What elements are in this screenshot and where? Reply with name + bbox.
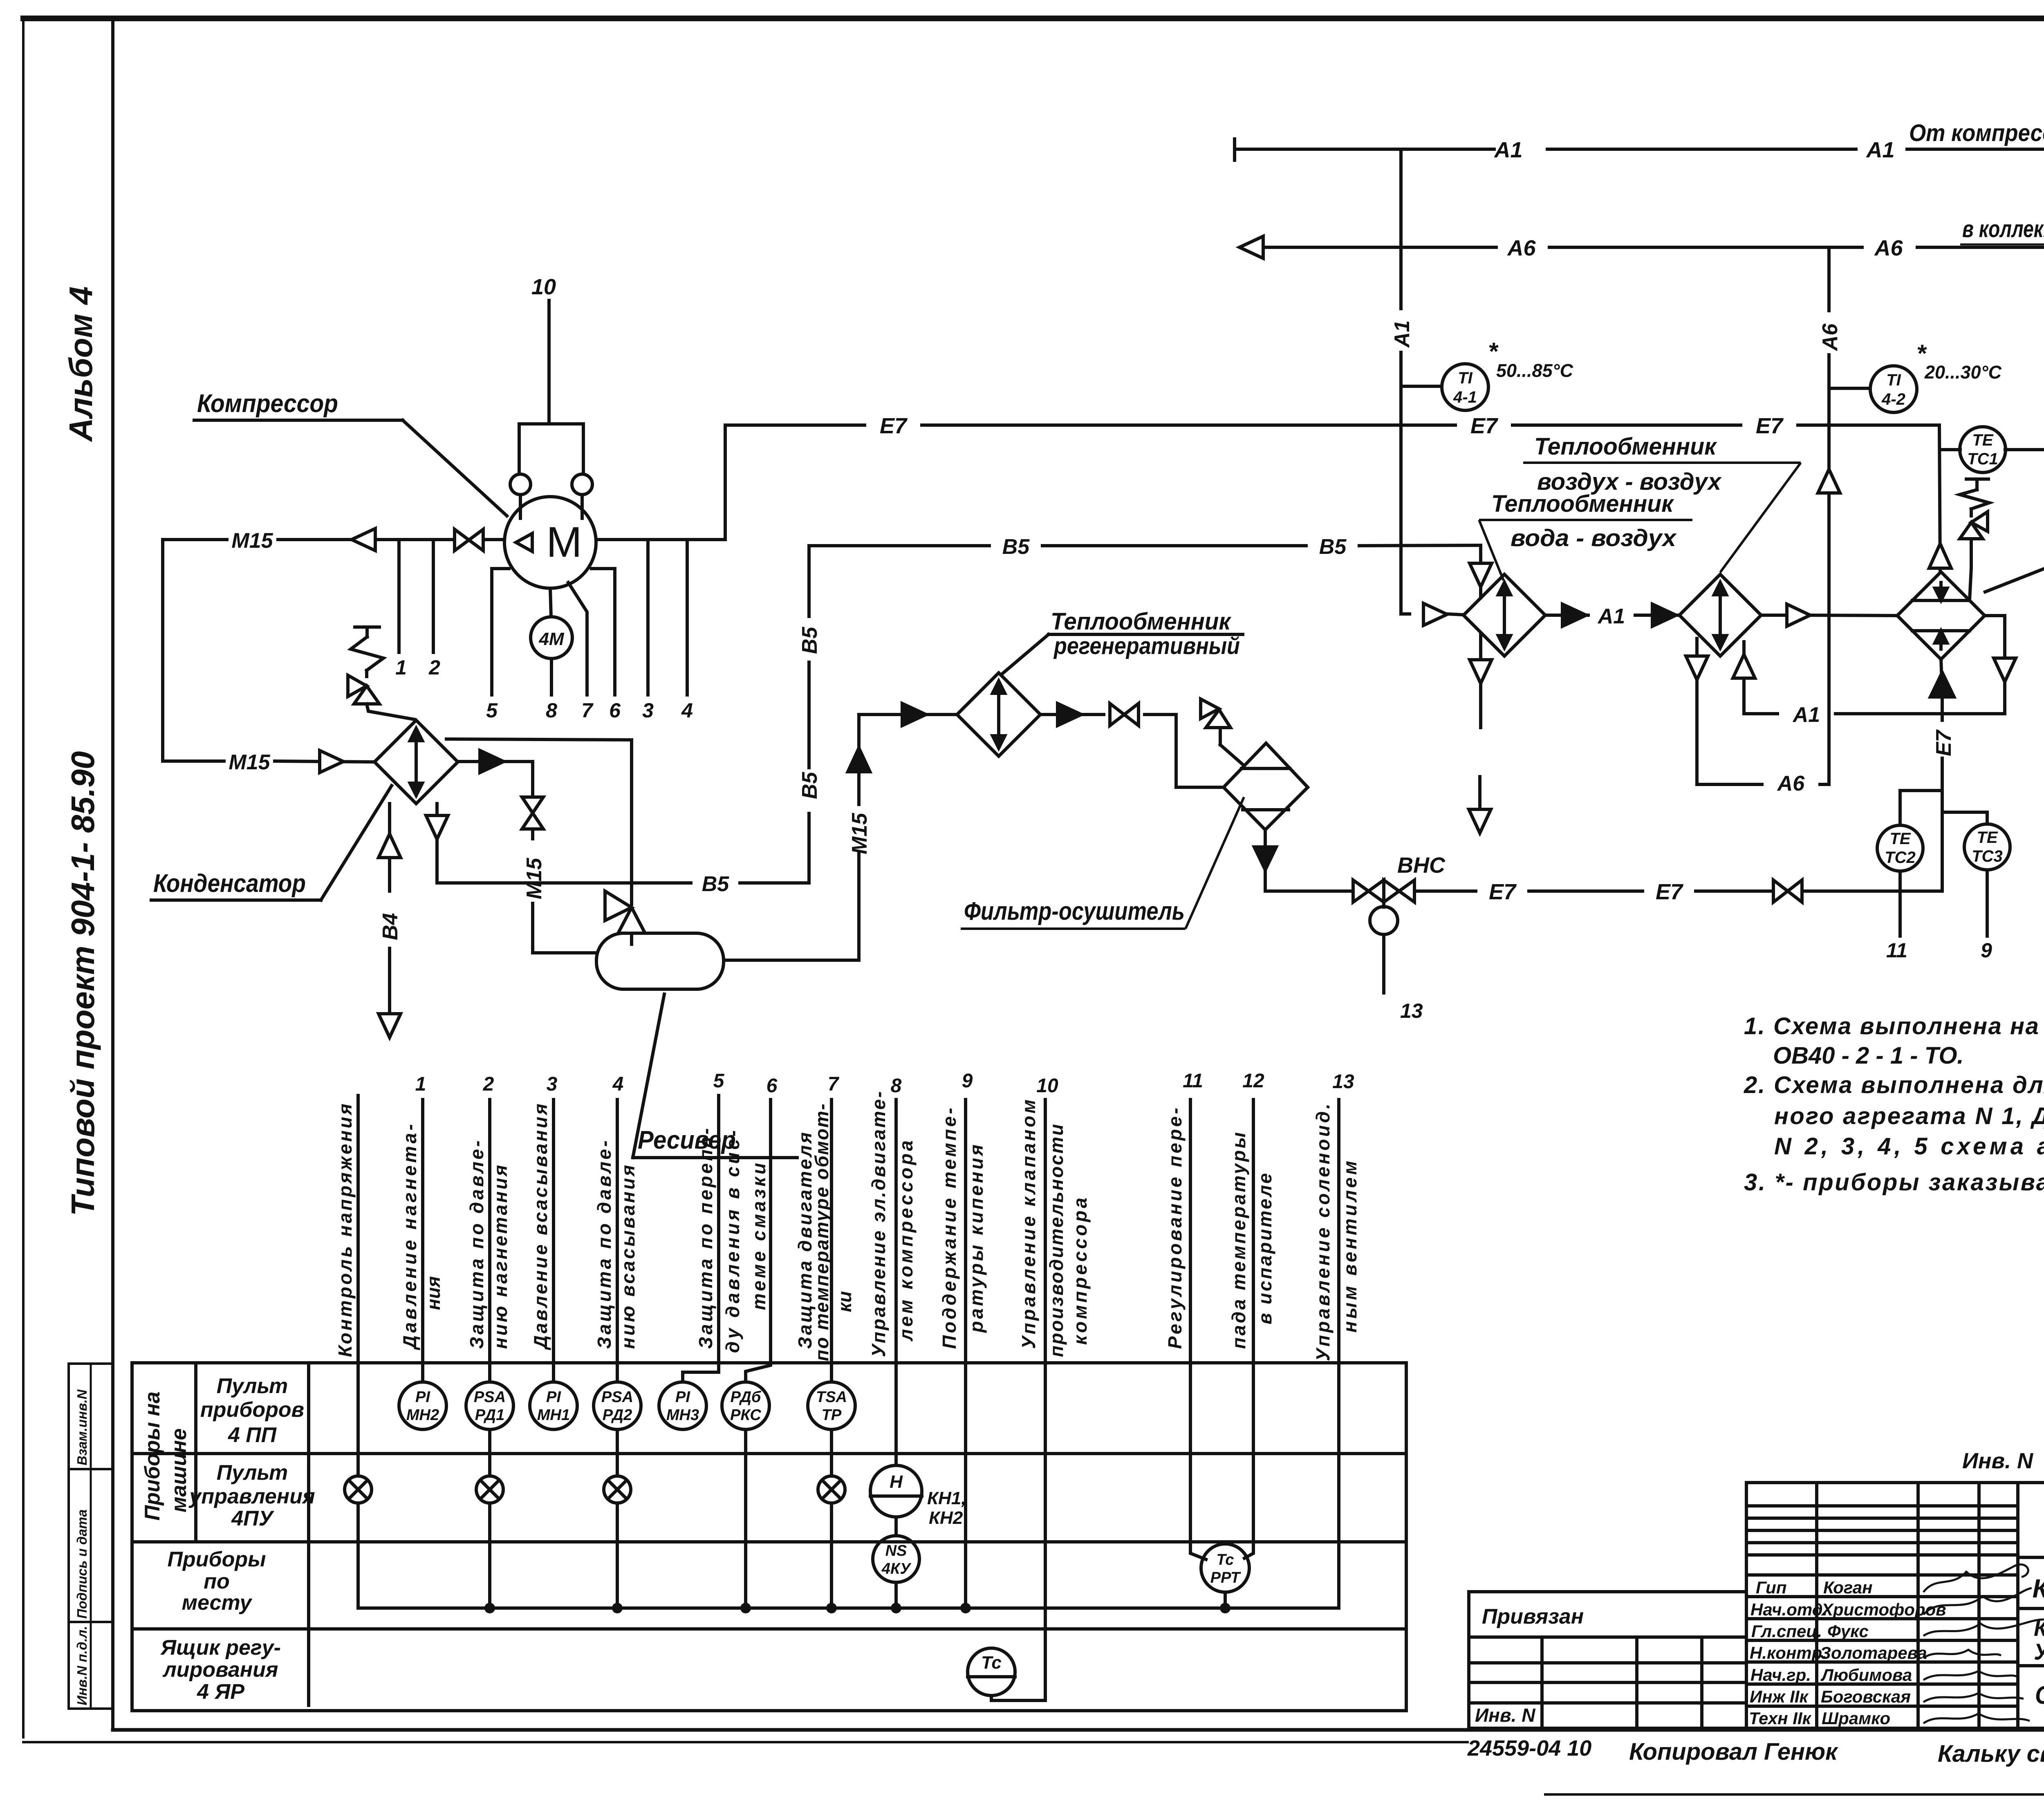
svg-text:РД1: РД1: [475, 1407, 504, 1424]
svg-text:по: по: [204, 1570, 230, 1593]
svg-text:ВНС: ВНС: [1397, 853, 1446, 878]
column line 12: [1244, 1100, 1253, 1558]
svg-text:Боговская: Боговская: [1821, 1687, 1911, 1706]
drawing frame left border: [111, 22, 114, 1730]
svg-text:нию нагнетания: нию нагнетания: [490, 1165, 511, 1349]
instrument TE TC1: [1960, 427, 2006, 473]
wire PSA RD1 to lamp: [488, 1429, 491, 1476]
svg-text:А6: А6: [1777, 772, 1805, 795]
svg-text:В5: В5: [702, 872, 730, 896]
svg-text:ного агрегата N 1, Для ком: ного агрегата N 1, Для компрессорных агр…: [1774, 1103, 2044, 1129]
wire lamp0 to bus: [356, 1503, 360, 1608]
svg-text:КН2: КН2: [929, 1508, 963, 1528]
svg-text:Теплообменник: Теплообменник: [1534, 433, 1717, 460]
svg-text:11: 11: [1183, 1070, 1203, 1092]
wire lamp7 to bus: [830, 1503, 833, 1608]
pipe A1 evaporator return: [1744, 616, 2016, 714]
title block texts: [1467, 1449, 2044, 1768]
rotated column labels: [334, 1091, 1360, 1361]
svg-text:М15: М15: [522, 858, 546, 899]
svg-text:регенеративный: регенеративный: [1053, 633, 1240, 659]
wire 5 hook: [492, 569, 509, 695]
svg-text:Ящик регу-: Ящик регу-: [160, 1636, 281, 1660]
condenser outlet arrow solid: [480, 750, 504, 773]
svg-text:4М: 4М: [538, 629, 564, 649]
svg-text:в коллектор: в коллектор: [1962, 216, 2044, 242]
regen HX label leader: [1002, 634, 1243, 674]
svg-text:N 2, 3, 4, 5 схема аналогичн: N 2, 3, 4, 5 схема аналогична.: [1774, 1133, 2044, 1160]
arrow up on M15 riser: [848, 748, 870, 772]
svg-text:Инж IIк: Инж IIк: [1750, 1687, 1809, 1706]
svg-text:Е7: Е7: [1489, 880, 1517, 904]
svg-text:теме смазки: теме смазки: [748, 1163, 769, 1310]
svg-text:Фукс: Фукс: [1827, 1622, 1869, 1641]
instrument Tc regulator: [968, 1648, 1015, 1696]
svg-text:ТSА: ТSА: [816, 1389, 847, 1406]
svg-text:А6: А6: [1506, 236, 1536, 260]
instrument TE TC3: [1964, 824, 2010, 870]
svg-text:4ПУ: 4ПУ: [231, 1507, 274, 1530]
column line 2: [488, 1100, 491, 1382]
svg-text:МН2: МН2: [406, 1407, 439, 1424]
svg-text:Е7: Е7: [1756, 414, 1784, 438]
sheet outer bottom border left part: [23, 1741, 1468, 1743]
pipe M15 condenser to receiver: [458, 762, 596, 953]
svg-text:В5: В5: [798, 626, 822, 654]
pipe A1 air-air HX to evaporator: [1761, 615, 1897, 616]
wire 9 from TE TC3: [1986, 870, 1989, 936]
compressor label leader: [194, 420, 507, 516]
wire 2 drop: [432, 540, 435, 652]
svg-text:7: 7: [581, 699, 594, 722]
instrument TE TC2: [1877, 825, 1923, 871]
lamp column 0: [345, 1476, 372, 1503]
svg-text:Защита по перепа-: Защита по перепа-: [695, 1128, 716, 1349]
column line 9: [964, 1100, 967, 1608]
svg-text:1. Схема выполнена на основ: 1. Схема выполнена на основании техничес…: [1744, 1013, 2044, 1039]
text pipe labels top: [153, 120, 2044, 1154]
svg-text:В5: В5: [798, 771, 822, 799]
wire 6 hook: [592, 569, 615, 695]
B5 drain through water-air HX: [1469, 635, 1492, 833]
lamp column 7: [818, 1476, 845, 1503]
column line 11: [1190, 1100, 1206, 1559]
svg-text:Н: Н: [890, 1472, 903, 1492]
svg-text:3: 3: [642, 699, 654, 722]
pipe B5 riser: [807, 546, 811, 883]
svg-text:PSА: PSА: [474, 1389, 506, 1406]
svg-text:ТІ: ТІ: [1886, 371, 1901, 389]
svg-text:4-1: 4-1: [1453, 388, 1477, 406]
wire A6 riser from header: [1827, 247, 1831, 784]
sheet top border: [20, 16, 2044, 21]
valve on E7 line: [1773, 880, 1802, 902]
svg-text:М: М: [546, 518, 582, 566]
svg-text:6: 6: [766, 1075, 778, 1097]
svg-text:Защита по давле-: Защита по давле-: [466, 1140, 487, 1349]
pipe B5 horizontal to HX: [809, 545, 1481, 563]
svg-text:РКС: РКС: [730, 1407, 761, 1424]
bus junction dots: [484, 1603, 1230, 1613]
wire M15 left downcomer: [163, 540, 374, 762]
instrument TSA TP: [808, 1382, 855, 1429]
arrow open after air-air HX: [1787, 604, 1810, 626]
arrow up on A6 riser: [1818, 469, 1840, 493]
svg-text:Кальку сверил Шрамко: Кальку сверил Шрамко: [1938, 1741, 2044, 1767]
svg-text:Компрессорная станция 5КЦ -1: Компрессорная станция 5КЦ -160 А0: [2033, 1574, 2044, 1603]
svg-text:МН3: МН3: [666, 1407, 699, 1424]
instrument TI 4-1: [1442, 364, 1488, 410]
wire RKS to bus: [744, 1429, 747, 1608]
svg-text:Поддержание темпе-: Поддержание темпе-: [939, 1108, 960, 1349]
svg-text:4: 4: [681, 699, 693, 722]
svg-text:Защита по давле-: Защита по давле-: [594, 1140, 615, 1349]
air-air HX drain A6: [1686, 638, 1829, 784]
filter-drier: [1224, 743, 1308, 830]
svg-text:РД2: РД2: [603, 1407, 632, 1424]
valve after regen HX: [1110, 703, 1139, 726]
column line kontrol napryazheniya: [356, 1095, 360, 1476]
svg-text:управления: управления: [188, 1485, 315, 1508]
svg-text:Христофоров: Христофоров: [1821, 1600, 1946, 1619]
svg-text:ОВ40 - 2 - 1 - ТО.: ОВ40 - 2 - 1 - ТО.: [1773, 1042, 1964, 1069]
tap to TE TC2: [1900, 791, 1942, 825]
svg-text:ТР: ТР: [822, 1407, 842, 1424]
svg-text:В5: В5: [1319, 535, 1347, 559]
svg-text:Конденсатор: Конденсатор: [153, 869, 306, 898]
svg-text:Управление эл.двигате-: Управление эл.двигате-: [868, 1091, 889, 1357]
svg-text:Е7: Е7: [1656, 880, 1684, 904]
instrument TI 4-2: [1870, 366, 1917, 412]
svg-text:Компрессор: Компрессор: [197, 390, 338, 418]
filter outlet down: [1254, 830, 1353, 891]
pipe A6 header: [1263, 246, 2044, 249]
condenser drain B5 down: [426, 804, 809, 883]
arrow up on E7 into header from evaporator: [1929, 544, 1951, 568]
svg-text:Ресивер: Ресивер: [638, 1126, 736, 1154]
svg-text:лирования: лирования: [162, 1658, 278, 1682]
arrow up solid on E7 riser: [1930, 672, 1954, 697]
title block main box: [2018, 1483, 2044, 1728]
svg-text:в испарителе: в испарителе: [1254, 1173, 1275, 1324]
condenser top outlet to receiver valve: [446, 739, 632, 904]
svg-text:2: 2: [428, 656, 440, 679]
svg-text:ТС3: ТС3: [1972, 847, 2003, 865]
table frame: [132, 1363, 1406, 1711]
svg-text:От компрессора: От компрессора: [1909, 120, 2044, 146]
svg-text:приборов: приборов: [200, 1398, 304, 1422]
evaporator relief valve: [1960, 479, 1989, 600]
svg-text:ТЕ: ТЕ: [1889, 830, 1911, 848]
air-air HX return A1 stub: [1733, 642, 1755, 714]
svg-text:пада температуры: пада температуры: [1228, 1132, 1249, 1349]
svg-text:Е7: Е7: [880, 414, 908, 438]
svg-text:А1: А1: [1493, 138, 1522, 162]
column line 7: [830, 1100, 833, 1382]
svg-text:Копировал Генюк: Копировал Генюк: [1629, 1738, 1838, 1765]
svg-text:9: 9: [962, 1070, 973, 1092]
filter relief valve: [1201, 699, 1244, 765]
instrument PI MH1: [530, 1382, 577, 1429]
svg-text:Тс: Тс: [1217, 1551, 1234, 1568]
wire 4 drop: [686, 540, 689, 695]
pipe E7 to evaporator riser: [1414, 889, 1942, 893]
column line 10: [991, 1100, 1045, 1700]
valve on condenser-receiver line: [522, 797, 543, 829]
signature scribbles: [1923, 1564, 2044, 1723]
instrument H KN1 KN2: [870, 1465, 922, 1517]
svg-text:Пульт: Пульт: [217, 1461, 288, 1485]
svg-text:ТС1: ТС1: [1967, 450, 1998, 468]
arrow solid into air-air HX: [1652, 604, 1676, 626]
receiver label leader: [633, 994, 797, 1158]
svg-text:производительности: производительности: [1046, 1124, 1067, 1357]
svg-text:8: 8: [891, 1075, 902, 1097]
svg-text:Инв.N п.д.л.: Инв.N п.д.л.: [74, 1626, 90, 1705]
instrument PSA RD2: [594, 1382, 641, 1429]
arrow solid after water-air HX: [1562, 604, 1586, 626]
svg-text:Коган: Коган: [1823, 1578, 1872, 1597]
privyazan stamp box: [1469, 1592, 1746, 1728]
svg-text:вода - воздух: вода - воздух: [1511, 525, 1677, 551]
wire 10 to starter: [547, 300, 551, 424]
svg-text:4: 4: [612, 1073, 624, 1095]
sheet outer bottom border right part: [1545, 1793, 2044, 1796]
svg-text:Управление соленоид.: Управление соленоид.: [1312, 1104, 1334, 1361]
wire 11 from TE TC2: [1898, 871, 1902, 936]
pipe regen HX to filter: [1040, 715, 1224, 787]
wire 1 drop: [397, 540, 401, 652]
instrument RDb RKS: [722, 1382, 769, 1429]
arrow left on M15 line: [352, 529, 375, 551]
svg-text:5: 5: [713, 1070, 725, 1092]
svg-text:Привязан: Привязан: [1482, 1605, 1584, 1629]
svg-text:PІ: PІ: [415, 1389, 430, 1406]
svg-text:ТС2: ТС2: [1885, 849, 1916, 867]
pipe M15 receiver outlet riser: [724, 715, 957, 960]
E7 corner and TE TC1: [1940, 450, 2044, 936]
svg-text:11: 11: [1886, 939, 1907, 962]
svg-text:PІ: PІ: [675, 1389, 690, 1406]
instrument 4M: [531, 617, 572, 659]
svg-text:А6: А6: [1818, 323, 1842, 352]
receiver vessel: [596, 933, 724, 989]
wire A1 riser from header: [1401, 149, 1464, 615]
svg-text:9: 9: [1981, 939, 1992, 962]
svg-text:ки: ки: [834, 1291, 855, 1312]
svg-text:Приборы: Приборы: [167, 1548, 266, 1571]
svg-text:КН1,: КН1,: [927, 1488, 966, 1508]
svg-text:Типовой проект 904-1- 85.90: Типовой проект 904-1- 85.90: [65, 751, 101, 1216]
instrument NS 4KU: [873, 1536, 919, 1582]
svg-text:Установка осушки N 1.: Установка осушки N 1.: [2034, 1639, 2044, 1664]
svg-text:PІ: PІ: [546, 1389, 561, 1406]
instrument PSA RD1: [466, 1382, 513, 1429]
svg-text:PSА: PSА: [601, 1389, 633, 1406]
water-air heat exchanger: [1464, 574, 1545, 656]
svg-text:4 ПП: 4 ПП: [228, 1423, 277, 1447]
column line 1: [421, 1100, 424, 1382]
svg-text:3. *- приборы заказываются п: 3. *- приборы заказываются по данному пр…: [1744, 1169, 2044, 1196]
svg-text:7: 7: [828, 1073, 840, 1095]
wire lamp2 to bus: [488, 1503, 491, 1608]
column line 8: [894, 1100, 898, 1465]
evaporator: [1897, 572, 1985, 659]
svg-text:13: 13: [1332, 1071, 1354, 1093]
svg-text:Нач.гр.: Нач.гр.: [1750, 1665, 1811, 1685]
svg-text:РДб: РДб: [731, 1389, 762, 1406]
column line 4: [616, 1100, 619, 1382]
valve VNS three-way: [1353, 880, 1414, 993]
relief valve above condenser: [348, 627, 415, 719]
svg-text:компрессора: компрессора: [1069, 1198, 1091, 1345]
svg-text:МН1: МН1: [537, 1407, 570, 1424]
svg-text:Шрамко: Шрамко: [1822, 1709, 1890, 1728]
pipe E7 riser to evaporator: [1941, 659, 1942, 891]
svg-text:1: 1: [415, 1073, 426, 1095]
wire NS to bus: [894, 1582, 898, 1608]
svg-text:М15: М15: [848, 813, 872, 854]
svg-text:Теплообменник: Теплообменник: [1491, 491, 1674, 517]
sheet outer left border: [22, 22, 25, 1737]
svg-text:РРТ: РРТ: [1210, 1569, 1241, 1586]
svg-text:4 ЯР: 4 ЯР: [197, 1680, 244, 1704]
svg-text:ния: ния: [423, 1276, 444, 1310]
svg-text:ТІ: ТІ: [1458, 369, 1472, 387]
wire 8 drop through 4M: [550, 588, 551, 695]
instrument PI MH3: [659, 1382, 706, 1429]
svg-text:3: 3: [547, 1073, 558, 1095]
arrow right on M15 into condenser: [320, 750, 343, 773]
filter label underline and leader: [961, 797, 1244, 929]
wire Tc PPT to bus: [1224, 1592, 1227, 1608]
svg-text:ТЕ: ТЕ: [1972, 431, 1993, 449]
svg-text:Компрессорная станция: Компрессорная станция: [2034, 1615, 2044, 1641]
svg-text:нию всасывания: нию всасывания: [617, 1165, 639, 1349]
svg-text:12: 12: [1242, 1070, 1264, 1092]
svg-text:Теплообменник: Теплообменник: [1051, 608, 1232, 635]
svg-text:Любимова: Любимова: [1820, 1665, 1912, 1685]
pipe M15 suction top line: [163, 538, 504, 541]
SCHEMATIC-TOP: [1353, 427, 2044, 993]
compressor starter box: [510, 424, 592, 518]
SCHEMATIC-MID: [132, 1095, 1406, 1711]
condenser label leader: [151, 786, 392, 900]
instrument Tc PPT: [1201, 1544, 1249, 1592]
svg-text:24559-04 10: 24559-04 10: [1467, 1736, 1591, 1761]
instrument PI MH2: [399, 1382, 446, 1429]
evaporator label leader: [1985, 525, 2044, 592]
pipe A1 header: [1235, 139, 2044, 160]
notes text block: [1744, 1013, 2044, 1196]
svg-text:Е7: Е7: [1932, 729, 1956, 756]
svg-text:6: 6: [609, 699, 621, 722]
TABLE: [1469, 1483, 2044, 1728]
svg-text:50...85°С: 50...85°С: [1496, 360, 1574, 381]
tap to TI 4-1: [1401, 385, 1442, 388]
svg-text:13: 13: [1400, 999, 1423, 1022]
wire PSA RD2 to lamp: [616, 1429, 619, 1476]
condenser drain B4: [379, 804, 401, 1037]
tap to TE TC3: [1942, 812, 1987, 824]
svg-text:ным вентилем: ным вентилем: [1339, 1161, 1360, 1333]
signature rows: [1749, 1578, 1946, 1728]
svg-text:8: 8: [546, 699, 557, 722]
svg-text:В5: В5: [1002, 535, 1030, 559]
svg-text:Приборы на: Приборы на: [141, 1391, 164, 1521]
air-air heat exchanger: [1679, 574, 1761, 656]
angle valve on receiver top: [605, 891, 645, 944]
arrow solid after regen HX: [1058, 703, 1081, 726]
svg-text:Фильтр-осушитель: Фильтр-осушитель: [964, 897, 1185, 925]
svg-text:Техн IIк: Техн IIк: [1749, 1709, 1812, 1728]
regenerative heat exchanger: [957, 673, 1040, 756]
svg-text:Золотарева: Золотарева: [1820, 1643, 1927, 1662]
svg-text:2. Схема выполнена для уста: 2. Схема выполнена для установки осушки …: [1744, 1072, 2044, 1098]
tap to TI 4-2: [1829, 387, 1870, 390]
svg-text:4КУ: 4КУ: [881, 1560, 912, 1577]
wire TSA TP to lamp: [830, 1429, 833, 1476]
compressor motor M: [504, 497, 596, 588]
svg-text:А1: А1: [1390, 320, 1414, 348]
svg-text:М15: М15: [229, 750, 270, 774]
svg-text:1: 1: [395, 656, 407, 679]
svg-text:месту: месту: [182, 1591, 253, 1615]
svg-text:А1: А1: [1597, 605, 1625, 628]
signature table box: [1746, 1483, 2018, 1728]
pipe E7 suction header: [725, 425, 1940, 572]
svg-text:NS: NS: [885, 1542, 907, 1559]
column line 5 with elbow: [683, 1095, 719, 1382]
svg-text:Давление нагнета-: Давление нагнета-: [399, 1124, 420, 1351]
svg-text:Схема автоматизации.: Схема автоматизации.: [2035, 1681, 2044, 1709]
svg-text:А1: А1: [1792, 703, 1820, 727]
svg-text:Управление клапаном: Управление клапаном: [1018, 1100, 1039, 1349]
svg-text:А6: А6: [1874, 236, 1903, 260]
svg-text:Пульт: Пульт: [217, 1374, 288, 1398]
svg-text:машине: машине: [167, 1428, 191, 1512]
svg-text:Тс: Тс: [981, 1653, 1002, 1673]
compressor discharge line to E7: [596, 425, 725, 540]
margin stamp box: [69, 1364, 113, 1709]
svg-text:Гл.спец.: Гл.спец.: [1751, 1622, 1822, 1641]
svg-text:4-2: 4-2: [1881, 390, 1905, 408]
svg-text:В4: В4: [379, 913, 402, 940]
lamp column 4: [604, 1476, 631, 1503]
lamp column 2: [476, 1476, 503, 1503]
svg-text:Инв. N: Инв. N: [1962, 1449, 2033, 1473]
arrow on A1 line into water-air HX: [1423, 603, 1447, 625]
table texts: [141, 1374, 1241, 1704]
svg-text:10: 10: [1036, 1075, 1058, 1097]
svg-text:Гип: Гип: [1756, 1578, 1787, 1597]
wire 7 diagonal: [568, 582, 587, 695]
wire 3 drop: [646, 540, 650, 695]
column line 6 with elbow: [746, 1100, 771, 1382]
wire H to NS: [894, 1517, 898, 1536]
drawing frame bottom border: [113, 1728, 2044, 1732]
bus line places by mesto: [358, 1606, 1339, 1610]
svg-text:Нач.отд.: Нач.отд.: [1750, 1600, 1827, 1619]
svg-text:по температуре обмот-: по температуре обмот-: [811, 1104, 832, 1361]
valve on M15 suction line: [455, 529, 483, 551]
pipe A1 between HX: [1545, 614, 1679, 617]
svg-text:А1: А1: [1865, 138, 1894, 162]
svg-text:5: 5: [486, 699, 498, 722]
arrow into regen HX: [902, 703, 926, 726]
svg-text:Е7: Е7: [1470, 414, 1499, 438]
svg-text:Подпись и дата: Подпись и дата: [74, 1510, 90, 1619]
